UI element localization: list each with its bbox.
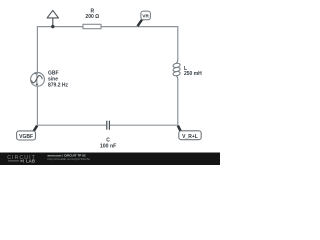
wire left upper segment [36, 26, 38, 73]
source GBF U1 [31, 73, 45, 87]
resistor R [83, 24, 101, 28]
probe badge VGBF [17, 126, 38, 141]
capacitor C [107, 121, 110, 130]
svg-text:V_R+L: V_R+L [182, 134, 198, 140]
svg-text:VR: VR [142, 13, 149, 18]
probe badge VR [138, 11, 151, 26]
antenna flag symbol [47, 10, 58, 26]
footer bar [0, 153, 220, 166]
wire bottom right segment [110, 124, 178, 126]
node junction dot [51, 25, 54, 28]
wire top right segment [101, 26, 178, 28]
svg-text:100 nF: 100 nF [100, 143, 116, 149]
wire top left segment [37, 26, 83, 28]
wire left lower segment [36, 86, 38, 125]
svg-text:sine: sine [48, 76, 58, 82]
svg-text:250 mH: 250 mH [184, 71, 202, 77]
svg-text:200 Ω: 200 Ω [85, 14, 99, 20]
svg-text:LAB: LAB [26, 159, 35, 164]
wire right upper segment [177, 26, 179, 60]
svg-text:VGBF: VGBF [19, 134, 33, 140]
svg-text:http://circuitlab.com/c/jhs732: http://circuitlab.com/c/jhs732sv5e [48, 157, 91, 161]
probe badge V_R+L [178, 126, 201, 140]
footer logo CIRCUIT LAB [7, 155, 36, 164]
svg-text:879.2 Hz: 879.2 Hz [48, 83, 69, 89]
wire right lower segment [177, 79, 179, 125]
inductor L [173, 59, 181, 79]
wire bottom left segment [37, 124, 106, 126]
